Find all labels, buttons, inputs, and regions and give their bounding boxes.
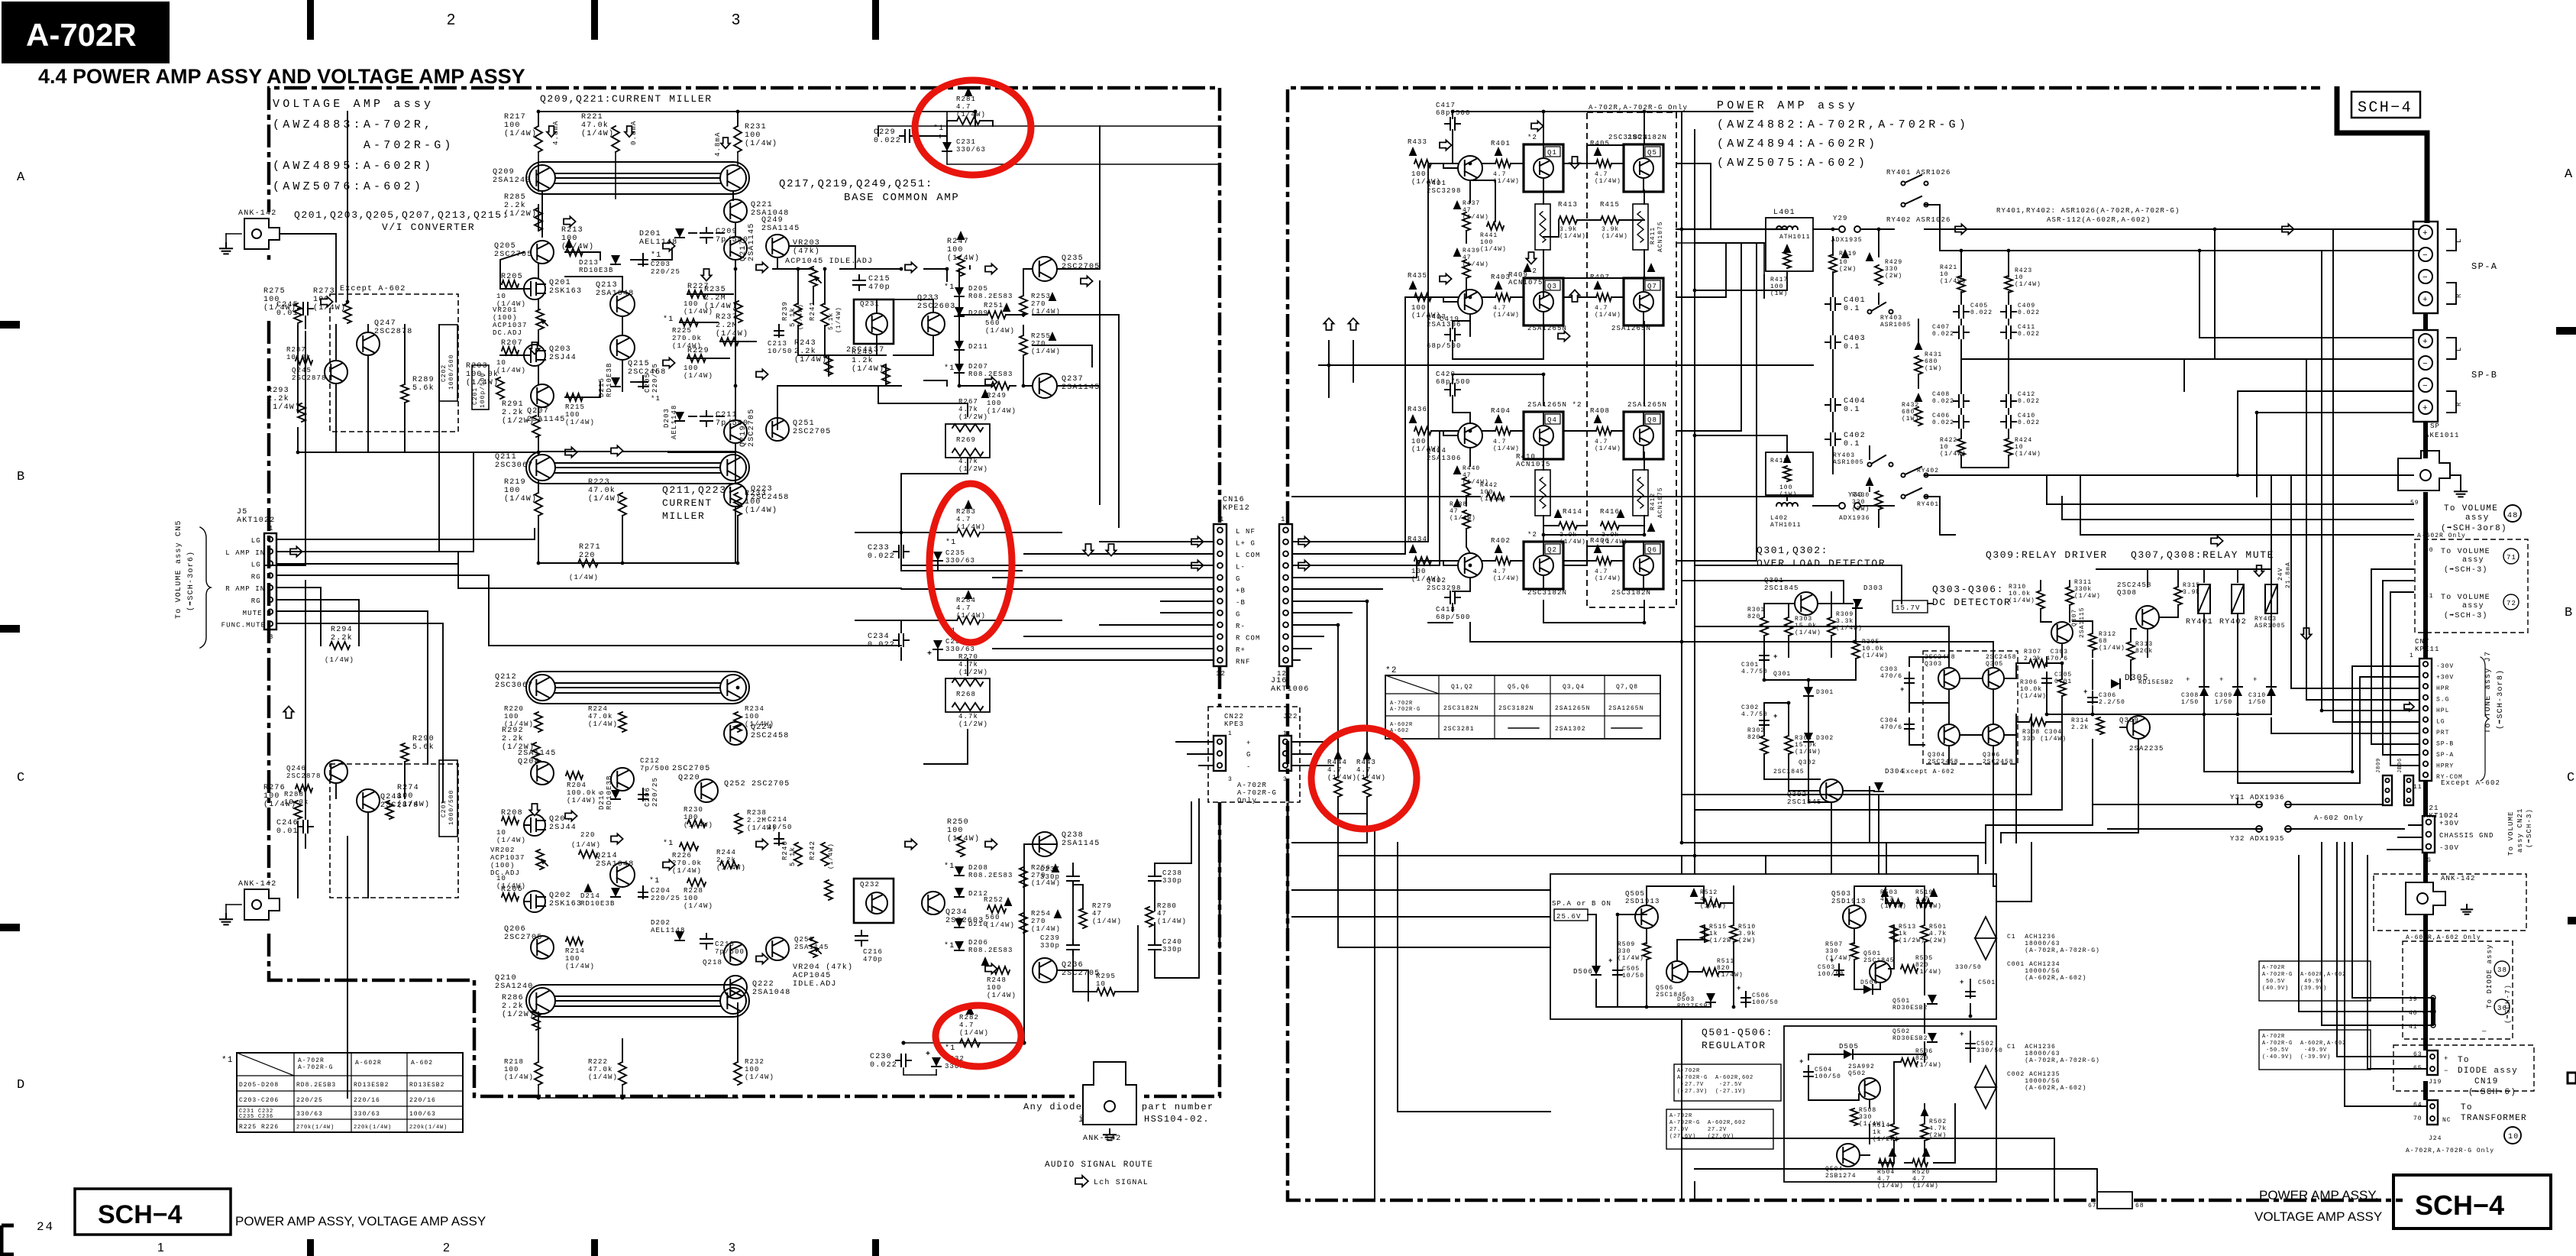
wire — [2352, 666, 2419, 772]
wire — [1808, 680, 1809, 686]
svg-text:R247: R247 — [947, 238, 969, 246]
wire — [1644, 112, 1645, 144]
svg-text:4.7: 4.7 — [1700, 896, 1713, 903]
capacitor — [1445, 329, 1460, 341]
wire — [1428, 163, 1458, 542]
svg-text:10: 10 — [1940, 271, 1949, 278]
svg-text:2SC2458: 2SC2458 — [1983, 759, 2014, 766]
svg-text:R301: R301 — [1747, 607, 1765, 613]
diode — [611, 888, 620, 897]
wire — [622, 1085, 623, 1098]
resistor R242 — [821, 843, 829, 866]
svg-text:(1W): (1W) — [1902, 416, 1919, 422]
wire — [1733, 886, 1734, 925]
resistor R203 — [496, 377, 504, 399]
transistor Q234 — [922, 892, 945, 914]
connector J16 — [1279, 524, 1292, 666]
resistor — [1875, 491, 1883, 510]
diode — [611, 255, 620, 264]
trimmer — [536, 309, 544, 329]
wire — [1682, 714, 2031, 795]
wire — [555, 1000, 720, 1002]
svg-text:VR204 (47k): VR204 (47k) — [793, 963, 853, 972]
wire — [1695, 902, 1704, 904]
wire — [1292, 496, 1480, 497]
voltage note box right 2 — [2259, 1030, 2371, 1070]
svg-text:Q8: Q8 — [1647, 416, 1657, 424]
svg-text:*1: *1 — [221, 1056, 234, 1065]
svg-text:12: 12 — [1216, 670, 1226, 678]
capacitor C304 — [1905, 718, 1914, 730]
svg-text:Q302: Q302 — [1799, 759, 1816, 766]
svg-text:2SA1265N: 2SA1265N — [1527, 325, 1567, 332]
wire — [1960, 251, 1962, 277]
svg-text:270.0k: 270.0k — [672, 859, 702, 867]
dashed box — [1923, 651, 2018, 764]
svg-text:4.7: 4.7 — [1915, 896, 1928, 903]
svg-text:R306: R306 — [2020, 679, 2038, 686]
svg-text:(1W): (1W) — [1770, 290, 1788, 297]
wire — [1909, 703, 1910, 712]
wire — [1831, 592, 1832, 617]
wire — [2062, 519, 2413, 520]
wire — [1694, 856, 1695, 874]
wire — [1948, 657, 1950, 668]
svg-text:Q206: Q206 — [504, 925, 526, 934]
capacitor C206 — [638, 788, 648, 801]
svg-text:Q209: Q209 — [493, 168, 515, 176]
wire — [298, 428, 538, 452]
resistor R271 — [578, 559, 598, 567]
svg-text:4.7: 4.7 — [1493, 305, 1506, 312]
resistor R232 — [734, 1062, 742, 1085]
svg-text:4.7: 4.7 — [1880, 896, 1893, 903]
svg-text:L: L — [2455, 238, 2463, 243]
svg-text:C240: C240 — [1162, 938, 1182, 946]
wire — [1918, 374, 1919, 388]
svg-text:(100): (100) — [490, 862, 516, 869]
wire — [538, 1012, 539, 1062]
wire — [2237, 613, 2238, 687]
svg-text:100: 100 — [1480, 239, 1493, 246]
wire — [2047, 503, 2413, 505]
wire — [1543, 190, 1544, 204]
svg-text:C209: C209 — [716, 228, 738, 236]
svg-text:71: 71 — [2507, 554, 2516, 562]
wire — [689, 232, 697, 234]
svg-text:2SC2878: 2SC2878 — [292, 374, 327, 382]
svg-text:R241: R241 — [809, 301, 816, 321]
svg-text:Q306: Q306 — [1983, 752, 2000, 759]
svg-text:(1/4W): (1/4W) — [1795, 630, 1821, 636]
svg-text:AEL1148: AEL1148 — [671, 404, 678, 439]
wire — [1924, 1141, 1925, 1163]
svg-text:(1/4W): (1/4W) — [1595, 312, 1621, 319]
svg-text:100: 100 — [1411, 568, 1427, 575]
wire — [622, 316, 623, 335]
warning mark — [981, 957, 990, 966]
svg-text:Q301,Q302:: Q301,Q302: — [1757, 545, 1828, 556]
diode — [2111, 679, 2120, 688]
svg-text:(1/2W): (1/2W) — [958, 668, 988, 676]
capacitor C502 — [1966, 1037, 1975, 1050]
svg-text:D215: D215 — [598, 377, 606, 397]
wire — [1869, 1125, 1870, 1144]
ground — [220, 243, 232, 254]
warning mark — [1453, 498, 1462, 507]
wire — [2004, 663, 2029, 678]
svg-text:R221: R221 — [581, 113, 603, 121]
svg-text:+: + — [1960, 1031, 1965, 1038]
svg-text:(1/4W): (1/4W) — [2015, 451, 2041, 458]
svg-text:C419: C419 — [1440, 316, 1459, 323]
svg-text:Q218: Q218 — [703, 959, 722, 966]
svg-text:R252: R252 — [984, 896, 1004, 904]
wire — [1676, 244, 1757, 561]
red circle R282 — [936, 1005, 1021, 1067]
resistor R286 — [532, 1010, 540, 1030]
svg-text:C215: C215 — [868, 275, 890, 283]
svg-text:4.7: 4.7 — [1493, 439, 1506, 445]
connector CN22 — [1214, 736, 1226, 771]
wire — [538, 516, 539, 563]
resistor — [957, 117, 980, 125]
svg-text:Q1: Q1 — [1547, 149, 1557, 157]
svg-text:48: 48 — [2507, 512, 2518, 520]
transistor pair Q212 ring — [526, 672, 749, 704]
resistor R303 — [1785, 617, 1792, 636]
transistor — [866, 313, 887, 335]
transistor Q236 — [1033, 958, 1057, 982]
svg-text:A-702R: A-702R — [1677, 1068, 1700, 1074]
warning mark — [1647, 523, 1656, 532]
svg-text:Q301: Q301 — [1764, 577, 1784, 584]
wire — [1869, 1099, 1870, 1108]
svg-text:R282: R282 — [959, 1014, 979, 1021]
svg-text:(1/4W): (1/4W) — [716, 864, 746, 872]
svg-text:+: + — [2253, 676, 2258, 684]
svg-text:5.1k: 5.1k — [789, 847, 797, 866]
signal arrow — [611, 834, 623, 843]
transistor Q214 — [610, 863, 635, 887]
svg-text:(1/4W): (1/4W) — [2074, 593, 2101, 600]
svg-text:2SA1145: 2SA1145 — [1062, 840, 1100, 848]
wire — [1010, 385, 1016, 387]
svg-text:100: 100 — [684, 364, 699, 372]
svg-text:2SC2705: 2SC2705 — [748, 409, 756, 447]
diode — [932, 1057, 941, 1067]
wire — [1854, 989, 1863, 990]
wire — [1543, 452, 1544, 470]
resistor — [960, 1039, 980, 1047]
svg-text:0.022: 0.022 — [874, 137, 901, 145]
svg-text:Q252 2SC2705: Q252 2SC2705 — [724, 780, 790, 788]
svg-text:4.7: 4.7 — [1595, 568, 1608, 575]
svg-text:Q309: Q309 — [2119, 717, 2139, 724]
wire — [1917, 902, 1932, 904]
svg-text:+: + — [1799, 1058, 1805, 1066]
svg-text:assy CN21: assy CN21 — [2516, 808, 2524, 853]
svg-text:R291: R291 — [502, 400, 524, 409]
wire — [1405, 297, 1458, 554]
transistor Q223 — [724, 484, 747, 507]
svg-text:3: 3 — [732, 11, 740, 28]
svg-text:J809: J809 — [2376, 758, 2382, 773]
svg-text:(1/4W): (1/4W) — [2099, 645, 2125, 652]
wire — [993, 648, 1214, 649]
svg-text:C408: C408 — [1932, 391, 1950, 398]
wire — [2383, 754, 2419, 756]
svg-text:(1/4W): (1/4W) — [1915, 903, 1942, 910]
capacitor C205 — [638, 376, 648, 388]
svg-text:Q1,Q2: Q1,Q2 — [1451, 684, 1473, 691]
wire — [1763, 663, 1765, 680]
resistor R514 — [1890, 1124, 1898, 1141]
warning mark — [1409, 414, 1417, 423]
resistor R243 — [825, 355, 832, 375]
svg-text:AKT1006: AKT1006 — [1271, 685, 1309, 694]
resistor R207 — [502, 347, 519, 354]
wire — [2382, 581, 2384, 755]
svg-text:C238: C238 — [1162, 869, 1182, 877]
wire — [1292, 659, 1300, 661]
wire — [1986, 740, 2093, 825]
svg-text:REGULATOR: REGULATOR — [1702, 1040, 1766, 1051]
svg-text:(AWZ4883:A-702R,: (AWZ4883:A-702R, — [273, 118, 434, 131]
wire — [885, 364, 887, 384]
wire — [1006, 315, 1023, 316]
wire — [1977, 856, 1979, 874]
svg-text:(1/4W): (1/4W) — [1463, 214, 1489, 221]
wire — [1918, 319, 1919, 345]
resistor — [1917, 899, 1932, 907]
wire — [1452, 112, 1453, 118]
svg-text:RD13ESB2: RD13ESB2 — [409, 1082, 444, 1089]
transistor Q222 — [724, 976, 747, 999]
svg-text:MILLER: MILLER — [662, 510, 705, 522]
svg-text:100: 100 — [745, 498, 761, 507]
wire — [947, 121, 957, 126]
connector Y32 — [2256, 826, 2262, 832]
wire — [2015, 714, 2017, 843]
svg-text:D505: D505 — [1839, 1043, 1859, 1050]
svg-text:B: B — [2565, 606, 2574, 620]
svg-text:3.3k: 3.3k — [1836, 618, 1854, 625]
warning mark — [1594, 280, 1602, 290]
wire — [2285, 804, 2383, 805]
wire — [1924, 942, 1925, 995]
wire — [1057, 126, 1100, 269]
wire — [1854, 928, 1855, 944]
svg-text:Q305: Q305 — [1986, 661, 2003, 668]
capacitor — [2001, 395, 2016, 407]
svg-text:D506: D506 — [1573, 968, 1593, 976]
warning mark — [957, 231, 965, 240]
svg-text:R408: R408 — [1590, 407, 1610, 415]
diode — [955, 866, 964, 876]
svg-text:(1/4W): (1/4W) — [1940, 278, 1967, 285]
svg-text:R515: R515 — [1709, 924, 1727, 931]
signal arrow — [290, 546, 302, 556]
svg-text:2SA1145: 2SA1145 — [748, 223, 756, 261]
resistor R231 — [734, 126, 742, 152]
left edge tick — [0, 625, 20, 633]
svg-text:R502: R502 — [1929, 1118, 1947, 1125]
svg-text:A: A — [2565, 167, 2574, 182]
wire — [1292, 624, 1338, 626]
capacitor C203 — [638, 254, 648, 266]
wire — [2093, 804, 2262, 805]
wire — [2001, 753, 2138, 833]
wire — [735, 443, 736, 484]
svg-text:Q247: Q247 — [374, 319, 396, 328]
transistor — [720, 165, 746, 191]
svg-text:4.7: 4.7 — [956, 516, 971, 523]
svg-text:D503: D503 — [1677, 996, 1695, 1003]
svg-text:ANK-142: ANK-142 — [1083, 1135, 1121, 1143]
svg-text:R253: R253 — [1031, 293, 1051, 300]
svg-text:4.7k: 4.7k — [958, 406, 978, 413]
svg-text:SP-B: SP-B — [2436, 741, 2454, 748]
svg-text:+B: +B — [1236, 588, 1246, 595]
voltage amp block border lower — [1141, 666, 1220, 1096]
svg-text:*1: *1 — [945, 1044, 955, 1053]
svg-text:R511: R511 — [1717, 958, 1734, 965]
svg-text:330/50: 330/50 — [1955, 964, 1982, 971]
svg-text:(1/4W): (1/4W) — [496, 882, 526, 890]
wire — [1644, 322, 1645, 405]
svg-text:Q238: Q238 — [1062, 831, 1084, 840]
wire — [1155, 802, 1191, 863]
svg-text:(1/2W): (1/2W) — [958, 413, 988, 421]
svg-text:ATH1011: ATH1011 — [1779, 234, 1811, 241]
wire — [2322, 710, 2419, 711]
svg-text:MUTE: MUTE — [243, 610, 263, 617]
svg-text:(1/4W): (1/4W) — [684, 821, 713, 829]
svg-text:50.5V 49.9V: 50.5V 49.9V — [2262, 979, 2323, 985]
svg-text:2.2k: 2.2k — [2071, 724, 2089, 731]
wire — [1469, 314, 1471, 336]
svg-text:(1/4W): (1/4W) — [1327, 774, 1357, 782]
wire — [2321, 251, 2322, 711]
wire — [1862, 228, 1894, 230]
wire — [1511, 163, 1524, 164]
svg-text:A-702R-G A-602R,602: A-702R-G A-602R,602 — [1677, 1075, 1753, 1081]
wire — [737, 152, 739, 165]
wire — [404, 403, 406, 452]
wire — [1894, 1062, 1901, 1123]
wire — [1453, 321, 1470, 329]
wire — [2159, 605, 2178, 617]
wire — [1023, 269, 1033, 295]
wire — [1808, 1054, 1844, 1060]
svg-text:100: 100 — [684, 300, 699, 308]
transistor Q308 — [2136, 606, 2159, 629]
svg-text:270: 270 — [1031, 340, 1046, 348]
wire — [1482, 560, 1495, 562]
wire — [1161, 600, 1214, 602]
wire — [1676, 243, 1764, 275]
svg-text:(1/4W): (1/4W) — [571, 841, 601, 849]
svg-text:R411: R411 — [1650, 227, 1656, 244]
wire — [1788, 636, 1789, 657]
transistor Q402 — [1458, 553, 1482, 578]
wire — [915, 135, 947, 137]
transistor pair Q209/Q221 ring — [526, 162, 749, 194]
signal arrow — [2211, 536, 2223, 545]
svg-text:10.0k: 10.0k — [1862, 646, 1884, 652]
signal arrow — [663, 358, 675, 367]
wire — [1676, 243, 1726, 297]
svg-text:R311: R311 — [2074, 579, 2092, 586]
resistor — [1414, 557, 1431, 565]
svg-text:D301: D301 — [1816, 689, 1834, 696]
wire — [2368, 856, 2427, 1069]
svg-text:RY402: RY402 — [2219, 618, 2247, 626]
svg-text:(1/2W): (1/2W) — [958, 465, 988, 473]
resistor — [1463, 212, 1470, 231]
svg-text:R514: R514 — [1873, 1122, 1890, 1129]
resistor R301 — [1760, 617, 1768, 636]
wire — [2008, 251, 2009, 277]
resistor — [952, 424, 983, 432]
warning mark — [1647, 263, 1656, 272]
svg-text:(2W): (2W) — [1738, 937, 1756, 944]
wire — [1287, 804, 1289, 947]
svg-text:C417: C417 — [1436, 102, 1456, 109]
signal arrow — [1569, 157, 1579, 169]
svg-text:C407: C407 — [1932, 324, 1950, 331]
svg-text:2SC3067: 2SC3067 — [495, 681, 533, 690]
svg-text:CURRENT: CURRENT — [662, 497, 713, 509]
resistor — [2005, 439, 2012, 455]
svg-text:(1/4W): (1/4W) — [959, 1029, 989, 1037]
svg-text:R310: R310 — [2009, 584, 2026, 591]
svg-text:4.8mA: 4.8mA — [714, 131, 722, 157]
wire — [716, 232, 724, 234]
svg-text:AKE1011: AKE1011 — [2425, 432, 2460, 439]
svg-text:(A-702R,A-702R-G): (A-702R,A-702R-G) — [2007, 1057, 2100, 1064]
signal arrow — [1558, 331, 1570, 341]
wire — [2271, 475, 2272, 687]
svg-text:1: 1 — [1228, 730, 1233, 737]
svg-text:1/50: 1/50 — [2215, 699, 2232, 706]
wire — [840, 268, 901, 270]
wire — [2092, 706, 2093, 714]
wire — [1924, 1004, 1925, 1033]
transistor — [720, 455, 746, 481]
wire — [2009, 358, 2215, 360]
svg-text:R508: R508 — [1859, 1107, 1876, 1114]
svg-text:(1/4W): (1/4W) — [985, 921, 1015, 929]
15.7V box — [1892, 600, 1928, 613]
wire — [1948, 689, 1950, 724]
svg-text:(1/4W): (1/4W) — [1602, 539, 1628, 545]
wire — [1453, 396, 1470, 423]
capacitor C215 — [853, 275, 865, 290]
wire — [1199, 765, 1214, 766]
signal arrow — [1440, 140, 1452, 150]
warning mark — [1617, 509, 1625, 518]
route arrow — [1075, 1176, 1088, 1186]
wire — [2271, 718, 2419, 733]
diode — [1863, 985, 1873, 994]
svg-text:(1/4W): (1/4W) — [1157, 918, 1187, 925]
svg-text:R255: R255 — [1031, 332, 1051, 340]
svg-text:C409: C409 — [2018, 303, 2035, 309]
signal arrow — [756, 953, 768, 963]
svg-text:CN22: CN22 — [1224, 713, 1244, 720]
